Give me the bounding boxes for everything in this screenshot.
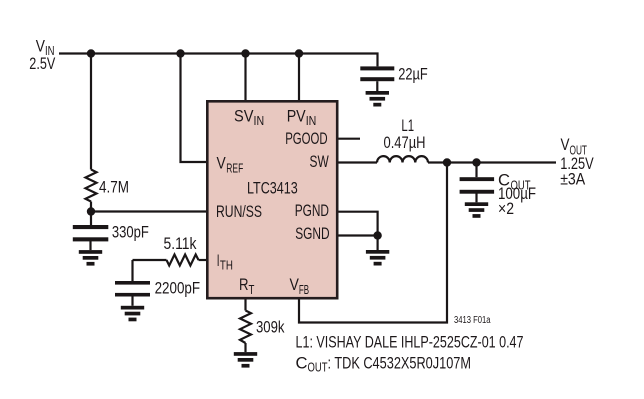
- svg-text:2200pF: 2200pF: [155, 279, 201, 298]
- svg-text:PV: PV: [287, 106, 307, 125]
- svg-text:3413 F01a: 3413 F01a: [454, 315, 491, 326]
- svg-text:IN: IN: [254, 114, 265, 128]
- svg-text:T: T: [249, 283, 255, 297]
- svg-text:V: V: [217, 153, 227, 172]
- svg-text:22µF: 22µF: [398, 65, 428, 84]
- svg-text:4.7M: 4.7M: [99, 177, 129, 196]
- svg-text:R: R: [239, 275, 249, 294]
- svg-text:309k: 309k: [256, 317, 285, 336]
- svg-text:330pF: 330pF: [112, 222, 149, 241]
- svg-text:PGOOD: PGOOD: [285, 129, 327, 148]
- svg-text:SV: SV: [234, 106, 254, 125]
- svg-text:LTC3413: LTC3413: [247, 179, 298, 198]
- svg-text:OUT: OUT: [308, 361, 328, 375]
- svg-text:RUN/SS: RUN/SS: [216, 202, 262, 221]
- svg-text:IN: IN: [306, 114, 317, 128]
- svg-text:±3A: ±3A: [560, 170, 586, 189]
- svg-text:FB: FB: [299, 283, 309, 297]
- svg-text:L1: VISHAY DALE IHLP-2525CZ-01: L1: VISHAY DALE IHLP-2525CZ-01 0.47: [296, 332, 524, 351]
- svg-text:: TDK C4532X5R0J107M: : TDK C4532X5R0J107M: [328, 354, 472, 373]
- svg-text:SW: SW: [310, 152, 329, 171]
- svg-text:C: C: [296, 354, 308, 373]
- svg-text:0.47µH: 0.47µH: [384, 133, 426, 152]
- svg-text:×2: ×2: [498, 199, 514, 218]
- svg-text:REF: REF: [226, 161, 243, 175]
- svg-text:5.11k: 5.11k: [164, 234, 197, 253]
- svg-text:PGND: PGND: [295, 201, 329, 220]
- svg-text:SGND: SGND: [295, 224, 329, 243]
- svg-text:2.5V: 2.5V: [29, 54, 55, 73]
- svg-text:TH: TH: [220, 259, 233, 273]
